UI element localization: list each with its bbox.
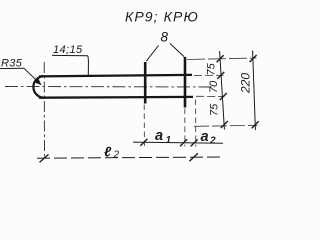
tick at 223.3/96.5: [220, 93, 227, 100]
14;15 leader: [87, 56, 90, 75]
svg-text:8: 8: [161, 30, 169, 45]
extension line top (crossbar top to dims): [187, 58, 257, 60]
svg-text:14;15: 14;15: [53, 44, 83, 56]
svg-text:a: a: [155, 128, 163, 144]
14;15 underline: [52, 54, 88, 56]
R35 underline: [0, 67, 24, 69]
tick at 224.3/124.5: [221, 121, 228, 128]
extension line bar-bottom to dims: [196, 95, 225, 97]
dimension line l2: [37, 157, 222, 158]
tick at 220/58.8: [217, 55, 224, 62]
svg-text:a: a: [201, 129, 209, 145]
R35 arrowhead: [34, 78, 41, 85]
tick at 253/58.5: [250, 55, 257, 62]
paper background: [0, 0, 264, 171]
svg-text:2: 2: [113, 150, 120, 161]
svg-text:75: 75: [209, 103, 221, 116]
dimension line 220 (outer vertical): [253, 51, 256, 131]
svg-text:1: 1: [166, 135, 172, 146]
8 leader right: [170, 44, 184, 57]
tick l2 right at 193.6: [189, 153, 198, 161]
bar top edge: [39, 75, 192, 77]
R35 leader: [24, 68, 40, 83]
svg-text:R35: R35: [1, 58, 23, 70]
svg-text:2: 2: [209, 136, 216, 147]
8 leader left: [146, 46, 158, 62]
horizontal centerline of bar: [5, 86, 215, 89]
svg-text:ℓ: ℓ: [104, 144, 112, 160]
dimension line 75/70/75 (inner vertical): [220, 51, 225, 130]
extension from bar end down: [195, 100, 197, 147]
bar rounded left end (R35 arc): [33, 76, 44, 98]
tick at 220.7/75.4: [217, 72, 224, 79]
tick a-dim at 194.2: [191, 139, 198, 146]
extension line bottom (to dims): [194, 125, 258, 126]
svg-text:КР9; КРЮ: КР9; КРЮ: [125, 9, 199, 25]
vertical centerline at arc center: [43, 62, 45, 158]
svg-text:70: 70: [208, 80, 220, 93]
extension line bar-top to dims: [194, 74, 224, 76]
crossbar left: [144, 62, 147, 104]
crossbar right: [184, 57, 187, 108]
extension from left crossbar down: [143, 105, 145, 147]
svg-text:220: 220: [239, 73, 253, 94]
tick at 255.2/124.8: [252, 121, 259, 128]
svg-text:75: 75: [206, 62, 218, 75]
tick l2 left at 44: [40, 154, 49, 162]
dimension line a1/a2: [133, 142, 223, 143]
bar bottom edge: [39, 96, 193, 99]
tick a-dim at 183.6: [180, 139, 187, 146]
tick a-dim at 143.9: [140, 139, 147, 146]
extension from right crossbar down: [184, 109, 186, 147]
